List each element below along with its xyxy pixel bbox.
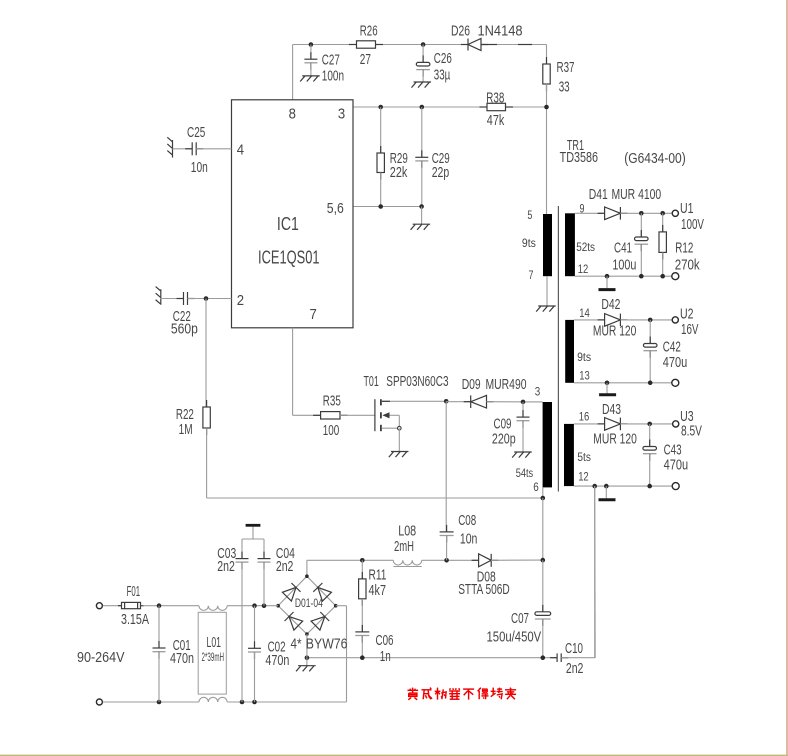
svg-text:C07: C07 xyxy=(511,611,529,627)
svg-text:F01: F01 xyxy=(127,584,141,600)
svg-text:R26: R26 xyxy=(360,23,378,39)
svg-text:9: 9 xyxy=(580,202,585,216)
svg-text:C08: C08 xyxy=(458,513,476,529)
svg-text:MUR 4100: MUR 4100 xyxy=(612,187,662,203)
svg-text:10n: 10n xyxy=(191,160,208,176)
svg-text:R11: R11 xyxy=(369,568,387,584)
svg-text:100V: 100V xyxy=(681,217,704,233)
svg-text:33: 33 xyxy=(559,80,570,96)
svg-text:3: 3 xyxy=(338,106,345,123)
svg-text:54ts: 54ts xyxy=(516,466,534,480)
svg-text:9ts: 9ts xyxy=(577,350,591,364)
svg-text:U1: U1 xyxy=(680,201,694,217)
svg-text:C43: C43 xyxy=(664,442,682,458)
svg-text:100: 100 xyxy=(323,423,340,439)
svg-text:2mH: 2mH xyxy=(394,539,414,555)
svg-text:2n2: 2n2 xyxy=(566,661,584,677)
svg-text:13: 13 xyxy=(579,369,590,383)
svg-text:3: 3 xyxy=(535,384,541,398)
svg-text:33µ: 33µ xyxy=(434,68,451,84)
svg-text:5ts: 5ts xyxy=(577,450,591,464)
svg-text:1n: 1n xyxy=(380,649,391,665)
svg-text:(G6434-00): (G6434-00) xyxy=(624,151,685,167)
svg-text:7: 7 xyxy=(310,306,317,323)
svg-text:2n2: 2n2 xyxy=(217,559,235,575)
svg-text:R12: R12 xyxy=(675,240,693,256)
svg-text:C10: C10 xyxy=(565,641,583,657)
svg-text:BYW76: BYW76 xyxy=(306,637,348,653)
svg-text:2n2: 2n2 xyxy=(276,559,294,575)
svg-text:90-264V: 90-264V xyxy=(77,650,125,666)
svg-text:2: 2 xyxy=(237,292,244,309)
svg-text:52ts: 52ts xyxy=(576,240,595,254)
svg-text:C27: C27 xyxy=(322,53,340,69)
svg-text:MUR 120: MUR 120 xyxy=(593,324,637,340)
svg-text:5,6: 5,6 xyxy=(327,200,344,217)
svg-text:2*39mH: 2*39mH xyxy=(202,650,225,664)
svg-text:1M: 1M xyxy=(179,422,193,438)
svg-text:1N4148: 1N4148 xyxy=(478,24,523,40)
svg-text:R35: R35 xyxy=(323,393,341,409)
svg-text:16: 16 xyxy=(579,410,590,424)
svg-text:470u: 470u xyxy=(663,355,688,371)
svg-text:R37: R37 xyxy=(557,60,575,76)
svg-text:220p: 220p xyxy=(492,432,516,448)
svg-text:MUR 120: MUR 120 xyxy=(593,432,637,448)
svg-text:D43: D43 xyxy=(602,402,621,418)
svg-text:7: 7 xyxy=(529,268,534,282)
svg-text:8.5V: 8.5V xyxy=(681,424,702,440)
svg-text:D26: D26 xyxy=(451,24,470,40)
svg-text:4*: 4* xyxy=(291,637,302,653)
svg-text:4k7: 4k7 xyxy=(369,583,387,599)
svg-text:C26: C26 xyxy=(434,51,452,67)
svg-text:L08: L08 xyxy=(398,524,416,540)
svg-text:14: 14 xyxy=(579,306,590,320)
svg-text:3.15A: 3.15A xyxy=(121,612,149,628)
svg-text:D42: D42 xyxy=(601,297,620,313)
svg-text:C41: C41 xyxy=(614,240,632,256)
svg-text:STTA 506D: STTA 506D xyxy=(458,582,510,598)
svg-text:8: 8 xyxy=(289,106,296,123)
svg-text:9ts: 9ts xyxy=(522,236,536,250)
svg-text:100n: 100n xyxy=(322,68,344,84)
svg-text:47k: 47k xyxy=(487,113,505,129)
svg-text:270k: 270k xyxy=(675,258,701,274)
svg-text:D41: D41 xyxy=(589,187,608,203)
svg-text:12: 12 xyxy=(578,469,589,483)
svg-text:L01: L01 xyxy=(207,635,222,651)
svg-text:470n: 470n xyxy=(170,651,194,667)
svg-text:R38: R38 xyxy=(486,91,504,107)
svg-text:C09: C09 xyxy=(494,417,512,433)
svg-text:C25: C25 xyxy=(187,125,205,141)
svg-text:10n: 10n xyxy=(460,531,478,547)
svg-text:150u/450V: 150u/450V xyxy=(487,629,542,645)
svg-text:D01-04: D01-04 xyxy=(295,596,323,610)
svg-text:22p: 22p xyxy=(432,165,450,181)
svg-text:C06: C06 xyxy=(376,633,394,649)
svg-text:27: 27 xyxy=(360,52,371,68)
svg-text:22k: 22k xyxy=(390,165,408,181)
svg-text:SPP03N60C3: SPP03N60C3 xyxy=(386,374,448,390)
svg-text:MUR490: MUR490 xyxy=(486,377,527,393)
svg-text:T01: T01 xyxy=(364,374,379,390)
svg-text:U2: U2 xyxy=(680,306,694,322)
svg-text:R22: R22 xyxy=(176,407,194,423)
svg-text:6: 6 xyxy=(533,480,539,494)
svg-text:12: 12 xyxy=(578,262,589,276)
svg-text:100u: 100u xyxy=(612,258,636,274)
svg-text:IC1: IC1 xyxy=(277,214,299,234)
svg-text:5: 5 xyxy=(527,208,532,222)
svg-text:470n: 470n xyxy=(265,653,289,669)
svg-text:D09: D09 xyxy=(462,377,481,393)
svg-text:4: 4 xyxy=(237,142,244,159)
svg-text:TD3586: TD3586 xyxy=(560,150,598,166)
svg-text:ICE1QS01: ICE1QS01 xyxy=(258,248,320,268)
svg-text:C42: C42 xyxy=(663,339,681,355)
svg-text:560p: 560p xyxy=(171,322,198,338)
svg-text:16V: 16V xyxy=(681,322,699,338)
svg-text:470u: 470u xyxy=(664,458,689,474)
